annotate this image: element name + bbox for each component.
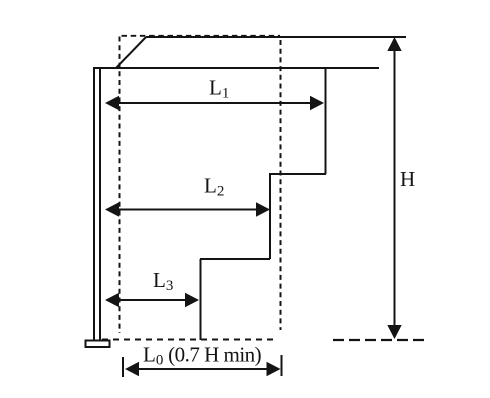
dimension L0 extension tick left [122,357,124,377]
dimension L2 arrow [105,202,270,216]
dimension L0 extension tick right [281,355,283,376]
excavation step 2 horizontal [200,258,270,260]
excavation step 2 vertical [269,174,271,259]
dashed ground line right [333,339,424,341]
dashed vertical right [280,40,282,330]
wall base plate [86,341,110,348]
dashed horizontal top [122,35,281,37]
lower ground line [93,67,379,69]
slope line [116,37,146,68]
dimension H arrow [387,37,401,339]
dimension L3 arrow [105,293,199,307]
wall stem (double line) [94,68,100,340]
dimension L0 arrow [125,362,281,376]
dashed horizontal bottom left [102,339,276,341]
upper ground line [146,36,406,38]
dimension L1 arrow [105,96,324,110]
dashed vertical left [119,37,121,334]
svg-text:H: H [400,167,415,191]
excavation step 3 vertical [200,259,202,340]
excavation step 1 horizontal [269,173,326,175]
excavation step 1 vertical [325,68,327,174]
